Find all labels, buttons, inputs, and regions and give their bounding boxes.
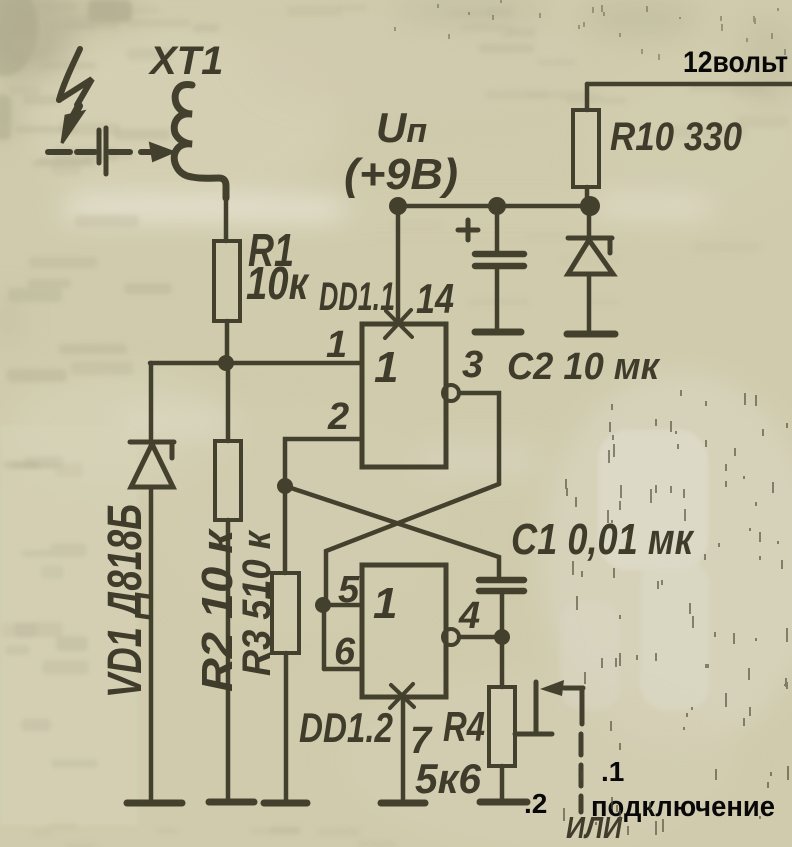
node pins 5/6 tie — [315, 597, 331, 613]
svg-text:XT1: XT1 — [148, 39, 223, 83]
svg-text:12вольт: 12вольт — [683, 46, 788, 79]
svg-text:DD1.2: DD1.2 — [299, 704, 393, 751]
svg-text:1: 1 — [374, 343, 398, 392]
svg-text:С1 0,01 мк: С1 0,01 мк — [511, 515, 695, 564]
wire C1 to node — [500, 594, 505, 637]
svg-text:5: 5 — [338, 569, 360, 611]
svg-text:R10 330: R10 330 — [610, 115, 742, 159]
ground terminal VD1 — [127, 800, 182, 807]
ground terminal R3 — [264, 800, 307, 807]
svg-text:4: 4 — [458, 595, 480, 637]
wire pin 7 to ground — [401, 697, 406, 801]
wire pin 5 — [323, 603, 362, 608]
potentiometer R4 body — [489, 687, 515, 766]
crossing wire to pins 5/6 — [326, 484, 499, 605]
wire R4 to terminal — [500, 766, 505, 800]
resistor R10 — [573, 110, 599, 187]
node Un left — [389, 197, 407, 215]
IC gate DD1.1 body — [362, 324, 446, 467]
capacitor (discharge coupling) — [48, 128, 130, 174]
svg-text:ИЛИ: ИЛИ — [566, 810, 623, 845]
wire node to C2 — [495, 206, 500, 252]
pin 14 power wire — [396, 206, 401, 324]
wire node to R4 — [500, 637, 505, 687]
svg-text:DD1.1: DD1.1 — [319, 275, 395, 319]
svg-text:6: 6 — [334, 631, 356, 673]
svg-text:С2 10 мк: С2 10 мк — [507, 346, 661, 388]
svg-text:R4: R4 — [443, 703, 485, 750]
wire R10 to node — [585, 187, 590, 206]
pin 14 cross mark — [385, 310, 412, 338]
wire pin 6 — [324, 667, 362, 672]
output bubble pin 4 — [443, 629, 459, 645]
IC gate DD1.2 body — [362, 565, 446, 697]
capacitor C2 plus sign — [458, 220, 478, 240]
zener diode VD2 — [568, 238, 613, 274]
node Un right (R10) — [580, 196, 600, 216]
wire 12V top — [587, 82, 792, 87]
pin 7 cross mark — [390, 684, 414, 708]
svg-text:10к: 10к — [246, 257, 310, 309]
wire output 3 to crossing — [459, 393, 499, 484]
resistor R3 — [272, 573, 299, 653]
terminal .2 — [480, 799, 527, 806]
wiper arrow — [564, 686, 583, 691]
svg-text:.1: .1 — [601, 756, 624, 787]
svg-text:(+9В): (+9В) — [344, 150, 458, 199]
svg-text:R3 510 к: R3 510 к — [235, 529, 279, 676]
svg-text:14: 14 — [416, 275, 454, 322]
power rail Un — [398, 204, 590, 209]
crossing wire pin2-node to C1 — [285, 486, 499, 577]
svg-text:2: 2 — [327, 396, 349, 438]
lightning / discharge symbol — [59, 49, 92, 143]
ground terminal pin 7 — [381, 800, 425, 807]
wire pin 1 of DD1.1 — [150, 361, 362, 366]
wire pin4 to node — [459, 635, 502, 640]
wire coil to R1 — [224, 196, 229, 241]
resistor R1 — [214, 241, 240, 321]
wire pin 2 of DD1.1 — [285, 439, 362, 483]
ground terminal VD2 — [567, 331, 615, 338]
capacitor C1 plates — [479, 580, 524, 591]
wire VD1 to ground rail — [149, 487, 154, 801]
capacitor C2 plates — [475, 254, 524, 266]
R4 wiper tap — [515, 732, 552, 737]
wire VD2 to terminal — [587, 274, 592, 331]
wire R2 to ground — [226, 520, 231, 799]
ground terminal C2 — [475, 329, 521, 336]
svg-text:Uп: Uп — [376, 104, 427, 151]
wire R1 to node — [225, 321, 230, 363]
node pin2/R3 junction — [277, 478, 293, 494]
output bubble pin 3 — [443, 385, 459, 401]
wire node to VD2 — [587, 206, 592, 239]
R4 wiper riser — [534, 682, 539, 734]
node R1/R2/pin1 junction — [218, 355, 234, 371]
svg-text:1: 1 — [326, 324, 347, 366]
arrow into probe coil — [141, 149, 153, 155]
wire C2 to terminal — [495, 268, 500, 330]
zener diode VD1 — [130, 442, 174, 487]
svg-text:.2: .2 — [524, 788, 547, 819]
svg-text:3: 3 — [462, 344, 483, 386]
wire node to R2 — [226, 363, 231, 441]
resistor R2 — [215, 441, 241, 520]
svg-text:VD1 Д818Б: VD1 Д818Б — [99, 504, 152, 698]
wire to VD1 — [149, 363, 154, 441]
node Un middle (C2) — [488, 197, 506, 215]
svg-text:5к6: 5к6 — [415, 755, 482, 802]
ground terminal R2 — [209, 799, 254, 806]
wire R3 to ground — [284, 653, 289, 801]
dashed wire to .1 connection — [580, 688, 585, 724]
wire top to R10 — [585, 84, 590, 110]
inductor XT1 probe coil — [174, 84, 226, 198]
wire node to R3 — [283, 486, 288, 573]
node pin4/C1/R4 — [494, 629, 510, 645]
svg-text:1: 1 — [373, 579, 397, 628]
wire tie 5 to 6 — [322, 605, 327, 669]
